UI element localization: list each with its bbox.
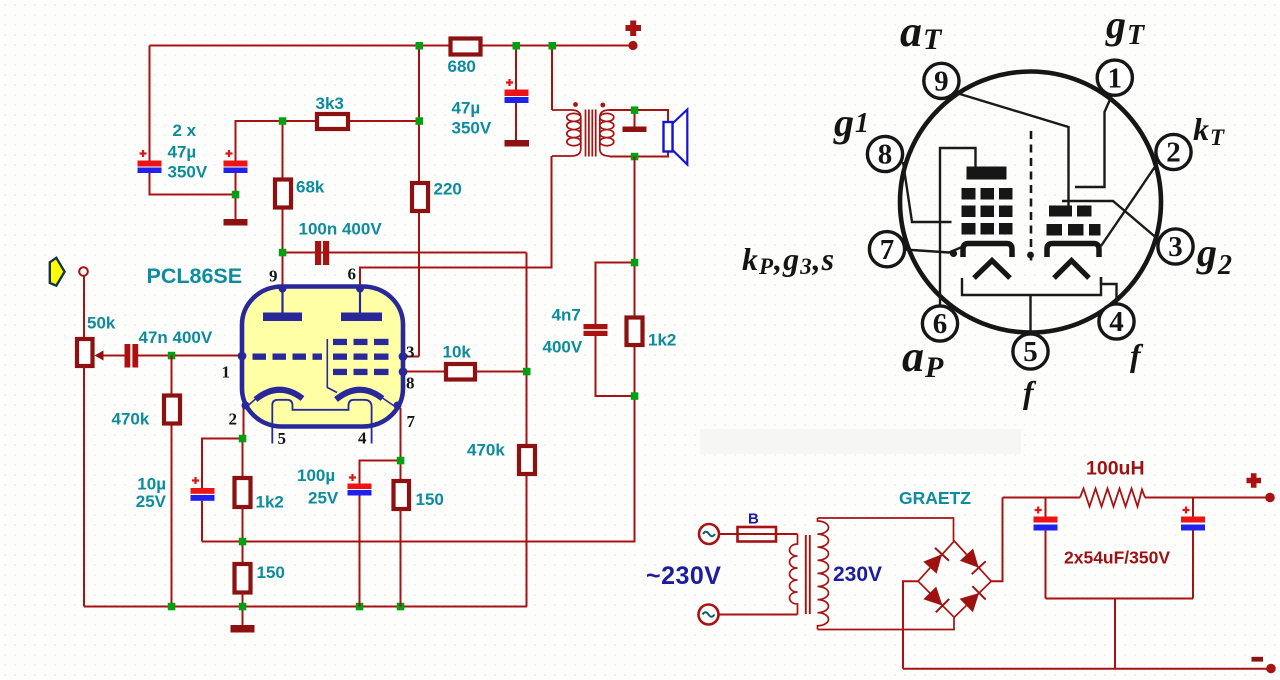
resistor R 150 pentode cathode xyxy=(394,481,410,509)
resistor R 150 mid xyxy=(235,564,251,593)
svg-text:50k: 50k xyxy=(87,314,116,333)
AC terminal bottom xyxy=(699,605,719,625)
svg-text:25V: 25V xyxy=(308,489,339,508)
wire x282 screen divider: cap B node to 68k to pin9 xyxy=(282,121,284,288)
wire 100u bottom to ground bus xyxy=(359,496,361,607)
svg-text:5: 5 xyxy=(278,429,287,448)
svg-text:4n7: 4n7 xyxy=(552,306,581,325)
wire 47u cap A bottom xyxy=(150,173,237,195)
wire left drop from B+ rail to 47u cap A xyxy=(149,46,151,162)
anode stems xyxy=(283,289,361,313)
wire secondary bottom to speaker xyxy=(610,151,669,157)
wire grid leak drop xyxy=(171,356,173,607)
svg-text:4: 4 xyxy=(1109,306,1124,338)
resistor R 68k xyxy=(275,180,291,208)
junction ground bus 100u xyxy=(356,603,364,611)
svg-text:1: 1 xyxy=(1108,62,1123,94)
svg-text:gT: gT xyxy=(1105,2,1146,51)
resistor R 3k3 xyxy=(317,114,348,129)
capacitor C 47u A plates xyxy=(138,161,162,167)
speaker xyxy=(673,110,688,165)
capacitor C 100n 400V xyxy=(315,241,321,265)
pin circle 4 xyxy=(1099,304,1134,339)
svg-text:100n 400V: 100n 400V xyxy=(299,220,383,239)
svg-text:400V: 400V xyxy=(543,338,583,357)
phase dots xyxy=(573,102,578,107)
svg-text:470k: 470k xyxy=(112,410,150,429)
svg-text:PCL86SE: PCL86SE xyxy=(147,264,243,288)
diode D3 bottom-left xyxy=(923,587,942,606)
capacitor C 54uF A xyxy=(1045,498,1047,517)
pinout envelope circle xyxy=(900,72,1161,333)
svg-text:220: 220 xyxy=(434,180,462,199)
svg-text:7: 7 xyxy=(880,234,895,266)
junction grid1 node xyxy=(168,352,176,360)
DC plus rail right xyxy=(1145,497,1270,499)
resistor R 470k input xyxy=(164,396,180,424)
wire pin7 drop xyxy=(400,408,402,480)
svg-text:350V: 350V xyxy=(168,163,208,182)
connect line pin3 to pentode g2 xyxy=(1062,201,1160,241)
input arrow icon xyxy=(50,258,65,286)
pentode anode plate xyxy=(341,313,382,322)
AC terminal top xyxy=(699,524,719,544)
svg-text:10µ: 10µ xyxy=(137,475,166,494)
svg-text:1k2: 1k2 xyxy=(648,331,676,350)
svg-text:47n 400V: 47n 400V xyxy=(139,328,213,347)
resistor R 470k grid xyxy=(519,446,535,474)
wire bridge plus to rail xyxy=(991,498,1002,582)
svg-text:g1: g1 xyxy=(833,100,870,145)
junction ground bus 150 pentode xyxy=(397,603,405,611)
pin circle 2 xyxy=(1156,134,1191,169)
wire bridge minus to bottom bus xyxy=(903,581,918,669)
svg-text:350V: 350V xyxy=(452,119,492,138)
junction top rail at filter cap xyxy=(513,42,521,50)
minus output symbol xyxy=(1252,657,1264,662)
svg-text:25V: 25V xyxy=(136,492,167,511)
triode grid dashes xyxy=(253,354,267,360)
triode cathode bracket xyxy=(1047,244,1099,258)
capacitor C 100u 25V xyxy=(348,484,372,490)
connect line pin5 to heater xyxy=(962,277,1101,334)
triode heater chevron xyxy=(1054,261,1089,279)
ground bar below cap B xyxy=(224,219,248,226)
wire drop to 47u filter cap xyxy=(515,46,517,91)
PSU transformer secondary xyxy=(818,518,829,630)
svg-text:47µ: 47µ xyxy=(452,99,481,118)
svg-text:3: 3 xyxy=(406,343,415,362)
triode cathode arc xyxy=(256,390,303,400)
svg-text:68k: 68k xyxy=(296,178,325,197)
resistor R 1k2 cathode xyxy=(235,478,251,507)
svg-text:1: 1 xyxy=(222,363,231,382)
svg-text:f: f xyxy=(1023,374,1037,410)
connect line pin6 to pentode anode xyxy=(940,148,976,306)
svg-text:GRAETZ: GRAETZ xyxy=(899,488,971,508)
junction 3k3 left node xyxy=(279,117,287,125)
minus output dot xyxy=(1266,664,1276,674)
svg-text:2: 2 xyxy=(1166,137,1181,169)
transformer core lines xyxy=(586,110,596,157)
svg-text:100µ: 100µ xyxy=(297,466,335,485)
tube envelope xyxy=(242,287,403,427)
wire 150 bottom to ground bus xyxy=(400,509,402,607)
svg-text:6: 6 xyxy=(933,308,948,340)
diode D2 top-right xyxy=(960,549,979,568)
wire pin7 node to 100u xyxy=(360,461,401,484)
wire pin8 to 10k xyxy=(403,371,445,373)
capacitor C 4n7 xyxy=(584,324,608,329)
junction 1k2 bottom xyxy=(239,538,247,546)
triode grid square rows xyxy=(1049,206,1072,217)
svg-text:~230V: ~230V xyxy=(646,562,722,590)
svg-text:2 x: 2 x xyxy=(173,121,197,140)
wire 47n to pin1 xyxy=(138,355,242,357)
pin dots on envelope xyxy=(279,285,287,293)
junction pin7 node xyxy=(397,457,405,465)
pentode heater chevron xyxy=(974,261,1010,279)
wire 1k2 to bus xyxy=(242,507,244,563)
wire wiper to 47n xyxy=(103,355,125,357)
cathode corner ticks xyxy=(247,398,396,407)
junction 47u caps common xyxy=(232,191,240,199)
dashed center line xyxy=(1030,131,1033,262)
wire cap bottom bus xyxy=(1046,598,1194,600)
pin circle 6 xyxy=(922,306,957,341)
svg-text:kP,g3,s: kP,g3,s xyxy=(742,241,835,279)
connect line pin9 to triode anode xyxy=(950,91,1069,206)
pentode cathode arc xyxy=(336,390,383,400)
svg-text:47µ: 47µ xyxy=(168,143,197,162)
pin circle 8 xyxy=(867,136,902,171)
svg-text:2: 2 xyxy=(229,410,238,429)
junction screen node xyxy=(416,117,424,125)
pentode anode bar xyxy=(967,167,1007,180)
wire vertical x419 from B+ rail through 220 to pin3 xyxy=(418,46,420,357)
cathode bus upper xyxy=(202,396,635,542)
svg-text:4: 4 xyxy=(358,429,367,448)
resistor R 10k xyxy=(446,364,475,380)
B+ terminal dot xyxy=(628,41,637,50)
wire jack to pot xyxy=(83,276,85,338)
wire 47u cap B bottom to ground xyxy=(235,173,237,220)
svg-text:230V: 230V xyxy=(833,563,882,586)
pot wiper arrow xyxy=(95,351,104,361)
svg-text:3k3: 3k3 xyxy=(316,94,344,113)
plus sign cap A xyxy=(140,150,147,157)
ground symbol xyxy=(231,625,255,633)
wire B+ top rail xyxy=(150,45,634,47)
center junction dot xyxy=(1027,252,1034,259)
potentiometer 50k body xyxy=(77,339,93,366)
connect line pin7 to cathode g3 xyxy=(905,247,963,253)
plus output symbol xyxy=(1247,473,1262,488)
wire feedback vertical x634 xyxy=(634,157,636,399)
svg-text:680: 680 xyxy=(448,57,476,76)
wire 10k to grid node xyxy=(475,371,527,373)
input jack circle xyxy=(79,267,88,276)
junction pin2 xyxy=(239,435,247,443)
junction ground bus 150 xyxy=(239,603,247,611)
resistor R 220 xyxy=(412,183,428,211)
pin circle 1 xyxy=(1097,60,1132,95)
plus symbol B+ xyxy=(626,21,642,37)
ground bus lower xyxy=(84,606,527,608)
wire secondary ground stem xyxy=(634,110,636,127)
svg-text:f: f xyxy=(1130,337,1144,373)
wire 100n coupling line xyxy=(283,252,527,254)
primary coil xyxy=(552,110,581,156)
svg-text:2x54uF/350V: 2x54uF/350V xyxy=(1064,548,1170,568)
svg-text:9: 9 xyxy=(269,267,278,286)
choke L 100uH xyxy=(1080,489,1145,507)
diode D4 bottom-right xyxy=(960,593,980,612)
wire neutral in xyxy=(719,614,798,616)
DC plus rail xyxy=(1003,497,1081,499)
wire 4n7 branch xyxy=(596,263,635,325)
pentode grid square rows xyxy=(962,188,976,200)
connect line pin2 to triode cathode xyxy=(1101,163,1158,246)
faint watermark band xyxy=(700,429,1021,454)
wire filter cap to ground xyxy=(515,103,517,141)
wire live in xyxy=(719,533,798,535)
wire 47u cap B top to 3k3 node xyxy=(236,121,317,161)
resistor R 1k2 feedback xyxy=(627,318,643,346)
wire secondary top to speaker xyxy=(610,110,669,123)
fuse B xyxy=(738,527,777,542)
svg-text:9: 9 xyxy=(934,66,949,98)
wire drop to output transformer primary top xyxy=(551,46,553,111)
DC minus bus xyxy=(903,668,1271,670)
pin circle 7 xyxy=(869,232,904,267)
ground bar secondary xyxy=(623,127,647,133)
secondary coil xyxy=(600,110,614,156)
bridge diamond outline xyxy=(918,541,991,617)
svg-text:150: 150 xyxy=(257,563,285,582)
svg-text:3: 3 xyxy=(1168,231,1183,263)
svg-text:B: B xyxy=(748,511,759,528)
junction grid node xyxy=(523,368,531,376)
svg-text:7: 7 xyxy=(407,412,416,431)
junction feedback top xyxy=(631,259,639,267)
svg-text:100uH: 100uH xyxy=(1086,458,1145,480)
beam plate line xyxy=(327,339,337,393)
pin circle 5 xyxy=(1013,334,1048,369)
pin circle 3 xyxy=(1158,229,1193,264)
plus sign cap B xyxy=(226,150,233,157)
svg-text:g2: g2 xyxy=(1196,230,1233,281)
wire 10u bottom xyxy=(201,501,203,542)
junction feedback bottom xyxy=(631,392,639,400)
svg-text:8: 8 xyxy=(878,139,893,171)
triode anode plate xyxy=(263,313,302,322)
plus output dot xyxy=(1265,493,1275,503)
junction ground bus 470k xyxy=(168,603,176,611)
PSU transformer primary xyxy=(790,534,798,615)
junction secondary top xyxy=(631,106,639,114)
svg-text:kT: kT xyxy=(1193,111,1225,150)
connect line pin4 to heater xyxy=(1101,277,1117,305)
junction secondary bottom xyxy=(631,153,639,161)
capacitor C 47n 400V xyxy=(125,344,131,368)
heater filament xyxy=(272,400,371,444)
diode D1 top-left xyxy=(923,554,942,574)
wire secondary top jog xyxy=(818,518,954,541)
svg-text:1k2: 1k2 xyxy=(256,493,284,512)
wire center drop xyxy=(1114,599,1116,669)
svg-text:10k: 10k xyxy=(443,343,472,362)
PSU transformer core xyxy=(806,535,810,614)
capacitor C 47u B plates xyxy=(224,161,248,167)
svg-text:5: 5 xyxy=(1023,336,1038,368)
wire 150 to ground bus xyxy=(242,592,244,625)
svg-text:aT: aT xyxy=(900,7,943,56)
wire pin2 to 1k2 xyxy=(242,439,244,478)
wire pin3 stub xyxy=(403,356,419,358)
wire grid node vertical x526 xyxy=(526,253,528,607)
junction 100n left xyxy=(279,249,287,256)
wire pot bottom xyxy=(83,366,85,607)
pentode grid rows xyxy=(333,339,347,345)
pentode cathode bracket xyxy=(963,244,1012,258)
capacitor C 10u 25V xyxy=(191,488,215,494)
wire secondary bottom jog xyxy=(818,618,955,630)
pin circle 9 xyxy=(924,63,959,98)
svg-text:8: 8 xyxy=(406,374,415,393)
wire 3k3 to screen node vertical x419 xyxy=(349,120,419,122)
junction top rail at transformer xyxy=(549,42,557,50)
capacitor C 54uF B xyxy=(1192,498,1194,517)
connect line pin1 to triode grid xyxy=(1075,95,1112,187)
wire pin6 to transformer primary bottom xyxy=(360,156,552,288)
wire pin2 cathode drop xyxy=(202,408,244,488)
connect line pin8 to pentode g1 xyxy=(903,162,952,222)
resistor R 680 xyxy=(451,39,481,55)
svg-text:6: 6 xyxy=(348,265,357,284)
capacitor C 47u 350V filter xyxy=(505,90,529,97)
ground bar filter cap xyxy=(505,140,530,147)
svg-text:470k: 470k xyxy=(467,441,505,460)
svg-text:150: 150 xyxy=(416,490,444,509)
junction top rail at 680/220 node xyxy=(416,42,424,50)
